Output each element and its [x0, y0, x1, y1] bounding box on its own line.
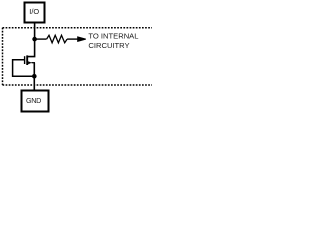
- I/O pad box: [25, 3, 45, 23]
- wire: resistor to arrow: [67, 38, 79, 40]
- svg-text:TO INTERNAL: TO INTERNAL: [88, 31, 138, 40]
- wire: node A to transistor drain: [28, 39, 35, 57]
- GND pad box: [22, 91, 49, 112]
- wire: node A to resistor: [35, 38, 47, 40]
- resistor R1: [47, 35, 68, 43]
- label: TO INTERNAL CIRCUITRY: [88, 31, 138, 50]
- transistor Q1 channel bar: [26, 55, 28, 65]
- dashed chip boundary: [3, 28, 153, 85]
- node A junction dot: [32, 37, 37, 42]
- arrowhead to internal circuitry: [77, 36, 86, 42]
- wire: node B to GND pad: [33, 76, 35, 90]
- transistor Q1 source wire with arrow: [28, 61, 35, 76]
- svg-text:GND: GND: [26, 96, 41, 105]
- svg-text:I/O: I/O: [29, 7, 39, 16]
- svg-text:CIRCUITRY: CIRCUITRY: [88, 41, 129, 50]
- transistor Q1 gate tie wire to node B: [13, 60, 35, 76]
- wire: I/O pad to node A: [34, 22, 36, 39]
- node B junction dot: [32, 74, 37, 79]
- transistor Q1 gate bar: [24, 56, 26, 64]
